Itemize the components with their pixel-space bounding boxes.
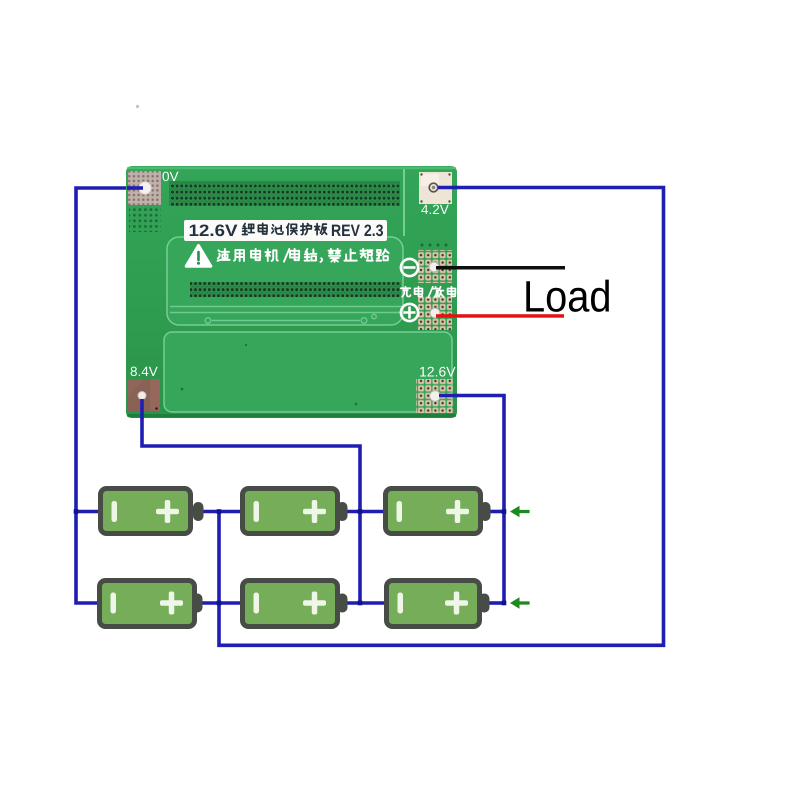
pad 8.4V (copper) — [128, 379, 160, 411]
battery B6 — [387, 581, 490, 627]
white title strip — [184, 220, 387, 241]
warning triangle — [186, 246, 211, 267]
battery B1 — [101, 489, 204, 534]
connector hole band middle — [190, 282, 401, 297]
red wire to load — [436, 314, 564, 318]
black wire to load — [436, 266, 565, 270]
PCB board — [126, 166, 457, 418]
label 12.6V — [420, 367, 455, 377]
pad cluster plus (right) — [418, 296, 452, 330]
wire stubs over pads — [127, 188, 458, 420]
wire junction nodes — [74, 509, 507, 605]
arrow row1 (green) — [510, 506, 530, 518]
symbol minus circle — [401, 259, 418, 276]
battery B2 — [243, 489, 348, 534]
panel specks — [181, 344, 358, 405]
silkscreen divider line — [403, 169, 405, 236]
warning text: shi yong dian ji / dian zuan , jin zhi duan lu — [218, 249, 389, 262]
pad cluster minus (right) — [418, 250, 452, 283]
battery B5 — [243, 581, 348, 627]
arrow row2 (green) — [510, 597, 530, 609]
label 0V — [163, 172, 179, 182]
redraw band middle above panel — [190, 282, 401, 297]
wire row1 series links — [198, 510, 504, 514]
pad 4.2V (cream, top-right) — [419, 172, 452, 204]
symbol plus circle — [401, 304, 418, 321]
label 8.4V — [131, 367, 158, 377]
connector hole band top — [169, 181, 400, 206]
title text: 12.6V [li dian chi bao hu ban] REV 2.3 — [190, 225, 238, 237]
label charge/discharge: chong dian / fang dian — [401, 287, 456, 298]
wire row2 series links — [201, 601, 504, 605]
silkscreen bottom panel — [164, 332, 452, 412]
label 4.2V — [421, 205, 448, 214]
silkscreen middle panel — [167, 237, 403, 325]
pad 0V (grey, top-left) — [128, 171, 161, 205]
wire net 12.6V (blue) — [435, 396, 504, 604]
battery B3 — [386, 489, 491, 534]
pad 12.6V cluster — [416, 379, 454, 413]
via dots above minus pad — [421, 244, 448, 247]
via grid below 0V pad — [129, 207, 161, 232]
wire net 0V (blue, left loop) — [76, 188, 145, 603]
battery B4 — [100, 581, 203, 627]
silkscreen traces — [170, 307, 402, 324]
label Load — [526, 280, 609, 312]
wire net 8.4V (blue) — [142, 396, 360, 603]
photo speck top-left — [136, 105, 139, 108]
wire net 4.2V (blue, right outer loop) — [219, 188, 664, 646]
